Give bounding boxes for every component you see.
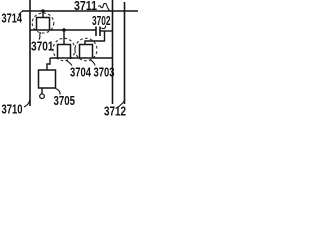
capacitor 3702 right plate: [99, 27, 101, 37]
transistor 3703 box: [80, 45, 93, 59]
svg-text:3701: 3701: [31, 40, 54, 54]
wire 3711 gate line (top horizontal): [22, 10, 138, 12]
svg-text:3704: 3704: [70, 66, 91, 80]
wire 3712 inner right bus: [112, 0, 114, 104]
leader for 3710: [24, 101, 30, 108]
node junction dot gate of 3704: [62, 28, 66, 32]
svg-text:3710: 3710: [2, 103, 23, 117]
wire capacitor to right bus: [100, 30, 113, 32]
wire stub below 3705: [41, 88, 43, 94]
wire gate of 3703 to capacitor node: [85, 31, 105, 45]
svg-text:3712: 3712: [104, 105, 126, 119]
transistor 3701 dashed circle: [32, 13, 54, 33]
svg-text:3705: 3705: [54, 94, 76, 108]
wire drop to element 3705: [47, 58, 50, 70]
leader for 3702: [102, 26, 106, 29]
leader for 3704: [66, 60, 72, 66]
wire gate stub of 3704: [63, 30, 65, 44]
svg-text:3702: 3702: [92, 14, 111, 28]
wire gate stub of 3701: [42, 11, 44, 17]
transistor 3704 box: [58, 45, 71, 59]
leader for 3705: [56, 89, 61, 95]
transistor 3703 dashed circle: [75, 38, 97, 60]
leader for 3712: [119, 100, 125, 107]
svg-text:3714: 3714: [2, 12, 23, 26]
wire 3714 left bus (vertical): [29, 0, 31, 106]
leader for 3714: [19, 11, 24, 15]
transistor 3704 dashed circle: [53, 38, 75, 60]
leader for 3711: [98, 3, 110, 11]
leader for 3701: [39, 33, 41, 40]
node junction dot gate of 3701: [41, 9, 45, 13]
resistor 3705 box: [39, 70, 56, 88]
wire 3712 outer right bus: [124, 2, 126, 104]
svg-text:3711: 3711: [74, 0, 97, 13]
wire bottom row (source-drain line of 3704/3703): [50, 57, 113, 59]
svg-text:3703: 3703: [94, 66, 115, 80]
wire node row (source-drain line of 3701 to capacitor): [30, 29, 96, 31]
transistor 3701 box: [37, 18, 50, 31]
terminal circle below 3705: [40, 94, 45, 99]
capacitor 3702 left plate: [95, 27, 97, 37]
leader for 3703: [90, 60, 95, 66]
